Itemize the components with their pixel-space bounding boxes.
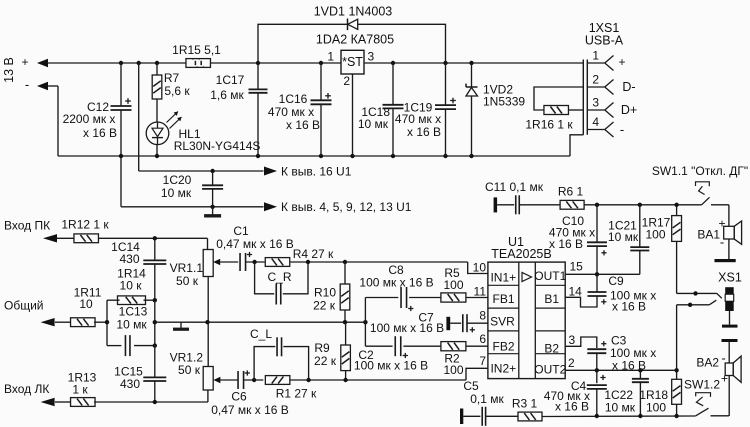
svg-text:4: 4 — [592, 115, 599, 129]
svg-text:0,47 мк х 16 В: 0,47 мк х 16 В — [216, 237, 294, 251]
svg-text:1VD1 1N4003: 1VD1 1N4003 — [314, 5, 393, 19]
svg-text:D+: D+ — [621, 103, 637, 117]
svg-text:1: 1 — [592, 49, 599, 63]
svg-text:100 мк х 16 В: 100 мк х 16 В — [370, 321, 444, 335]
svg-text:IN1+: IN1+ — [490, 271, 516, 285]
svg-text:6: 6 — [479, 332, 486, 346]
svg-text:50 к: 50 к — [178, 363, 201, 377]
svg-text:х 16 В: х 16 В — [549, 237, 583, 251]
svg-text:R10: R10 — [314, 286, 336, 300]
svg-text:470 мк х: 470 мк х — [395, 112, 441, 126]
svg-text:100: 100 — [443, 363, 463, 377]
svg-text:OUT1: OUT1 — [534, 269, 566, 283]
svg-text:B2: B2 — [544, 341, 559, 355]
svg-text:R3 1: R3 1 — [512, 397, 538, 411]
svg-text:50 к: 50 к — [176, 274, 199, 288]
svg-text:1N5339: 1N5339 — [483, 95, 525, 109]
svg-text:R6 1: R6 1 — [558, 185, 584, 199]
svg-text:14: 14 — [569, 285, 583, 299]
svg-text:Вход ЛК: Вход ЛК — [4, 382, 49, 396]
svg-text:3: 3 — [368, 50, 375, 64]
svg-text:1C20: 1C20 — [163, 173, 192, 187]
svg-text:C_R: C_R — [267, 270, 291, 284]
svg-text:2200 мк х: 2200 мк х — [63, 112, 116, 126]
svg-text:0,1 мк: 0,1 мк — [470, 392, 504, 406]
svg-text:-: - — [25, 77, 29, 92]
svg-text:FB2: FB2 — [492, 339, 514, 353]
svg-text:OUT2: OUT2 — [534, 362, 566, 376]
svg-text:470 мк х: 470 мк х — [268, 105, 314, 119]
svg-text:1C17: 1C17 — [216, 73, 245, 87]
svg-text:430: 430 — [119, 252, 139, 266]
svg-text:SW1.1 "Откл. ДГ": SW1.1 "Откл. ДГ" — [652, 164, 748, 178]
svg-text:-: - — [721, 351, 725, 366]
svg-text:Вход ПК: Вход ПК — [4, 219, 50, 233]
svg-text:SVR: SVR — [490, 315, 515, 329]
svg-text:D-: D- — [622, 80, 635, 94]
svg-text:1,6 мк: 1,6 мк — [210, 88, 244, 102]
svg-text:К выв. 4, 5, 9, 12, 13 U1: К выв. 4, 5, 9, 12, 13 U1 — [281, 200, 412, 214]
svg-text:10: 10 — [79, 297, 93, 311]
svg-text:R7: R7 — [164, 71, 180, 85]
svg-text:100: 100 — [646, 401, 666, 415]
svg-text:10 мк: 10 мк — [605, 401, 636, 415]
svg-text:1 к: 1 к — [72, 383, 88, 397]
svg-text:х 16 В: х 16 В — [555, 400, 589, 414]
svg-text:1R15 5,1: 1R15 5,1 — [172, 43, 221, 57]
svg-text:C11 0,1 мк: C11 0,1 мк — [485, 180, 544, 194]
svg-text:Общий: Общий — [4, 299, 44, 313]
svg-text:1DA2 КА7805: 1DA2 КА7805 — [316, 33, 394, 47]
svg-text:22 к: 22 к — [313, 299, 336, 313]
svg-text:*ST: *ST — [342, 55, 363, 69]
svg-text:10 мк: 10 мк — [116, 318, 147, 332]
svg-text:C9: C9 — [608, 274, 624, 288]
svg-text:1С13: 1С13 — [119, 305, 148, 319]
svg-text:100 мк х 16 В: 100 мк х 16 В — [359, 276, 433, 290]
svg-text:1C16: 1C16 — [279, 92, 308, 106]
svg-text:х 16 В: х 16 В — [83, 126, 117, 140]
svg-text:0,47 мк х 16 В: 0,47 мк х 16 В — [211, 403, 289, 417]
svg-text:BA2: BA2 — [696, 356, 719, 370]
svg-text:10 мк: 10 мк — [608, 230, 639, 244]
svg-text:100 мк х 16 В: 100 мк х 16 В — [354, 359, 428, 373]
svg-text:13 В: 13 В — [2, 57, 16, 83]
svg-text:5,6 к: 5,6 к — [164, 84, 190, 98]
svg-text:430: 430 — [120, 377, 140, 391]
svg-text:1R12 1 к: 1R12 1 к — [61, 218, 109, 232]
svg-text:R9: R9 — [314, 341, 330, 355]
svg-text:10 к: 10 к — [120, 279, 143, 293]
svg-text:11: 11 — [474, 285, 487, 299]
svg-text:100: 100 — [443, 278, 463, 292]
svg-text:C6: C6 — [231, 390, 247, 404]
svg-text:10 мк: 10 мк — [358, 117, 389, 131]
svg-text:USB-A: USB-A — [585, 34, 624, 48]
svg-text:+: + — [721, 371, 728, 385]
svg-text:22 к: 22 к — [314, 354, 337, 368]
svg-text:SW1.2: SW1.2 — [684, 378, 720, 392]
svg-text:х 16 В: х 16 В — [612, 300, 646, 314]
svg-text:100: 100 — [645, 228, 665, 242]
svg-text:7: 7 — [479, 354, 486, 368]
svg-text:х 16 В: х 16 В — [286, 118, 320, 132]
svg-text:8: 8 — [479, 309, 486, 323]
svg-text:VR1.1: VR1.1 — [170, 261, 204, 275]
svg-text:R1 27 к: R1 27 к — [276, 387, 317, 401]
svg-text:R4 27 к: R4 27 к — [293, 247, 334, 261]
svg-text:10: 10 — [473, 261, 487, 275]
svg-text:FB1: FB1 — [492, 292, 514, 306]
svg-text:-: - — [720, 235, 724, 250]
svg-text:2: 2 — [343, 74, 350, 88]
svg-text:B1: B1 — [544, 292, 559, 306]
svg-text:1: 1 — [327, 50, 334, 64]
svg-text:К выв. 16 U1: К выв. 16 U1 — [281, 165, 352, 179]
svg-text:IN2+: IN2+ — [490, 361, 516, 375]
svg-text:C1: C1 — [233, 224, 249, 238]
svg-text:-: - — [620, 122, 624, 137]
svg-text:BA1: BA1 — [697, 227, 720, 241]
svg-text:+: + — [618, 55, 625, 69]
svg-text:XS1: XS1 — [718, 271, 742, 285]
svg-text:RL30N-YG414S: RL30N-YG414S — [174, 139, 261, 153]
svg-text:3: 3 — [592, 96, 599, 110]
svg-text:1R16 1 к: 1R16 1 к — [525, 118, 573, 132]
svg-text:х 16 В: х 16 В — [407, 125, 441, 139]
svg-text:2: 2 — [568, 356, 575, 370]
svg-text:TEA2025B: TEA2025B — [491, 247, 551, 261]
svg-text:10 мк: 10 мк — [161, 186, 192, 200]
svg-text:2: 2 — [592, 73, 599, 87]
svg-text:3: 3 — [569, 333, 576, 347]
svg-text:15: 15 — [570, 260, 584, 274]
svg-text:+: + — [21, 55, 28, 69]
svg-text:C_L: C_L — [250, 327, 272, 341]
